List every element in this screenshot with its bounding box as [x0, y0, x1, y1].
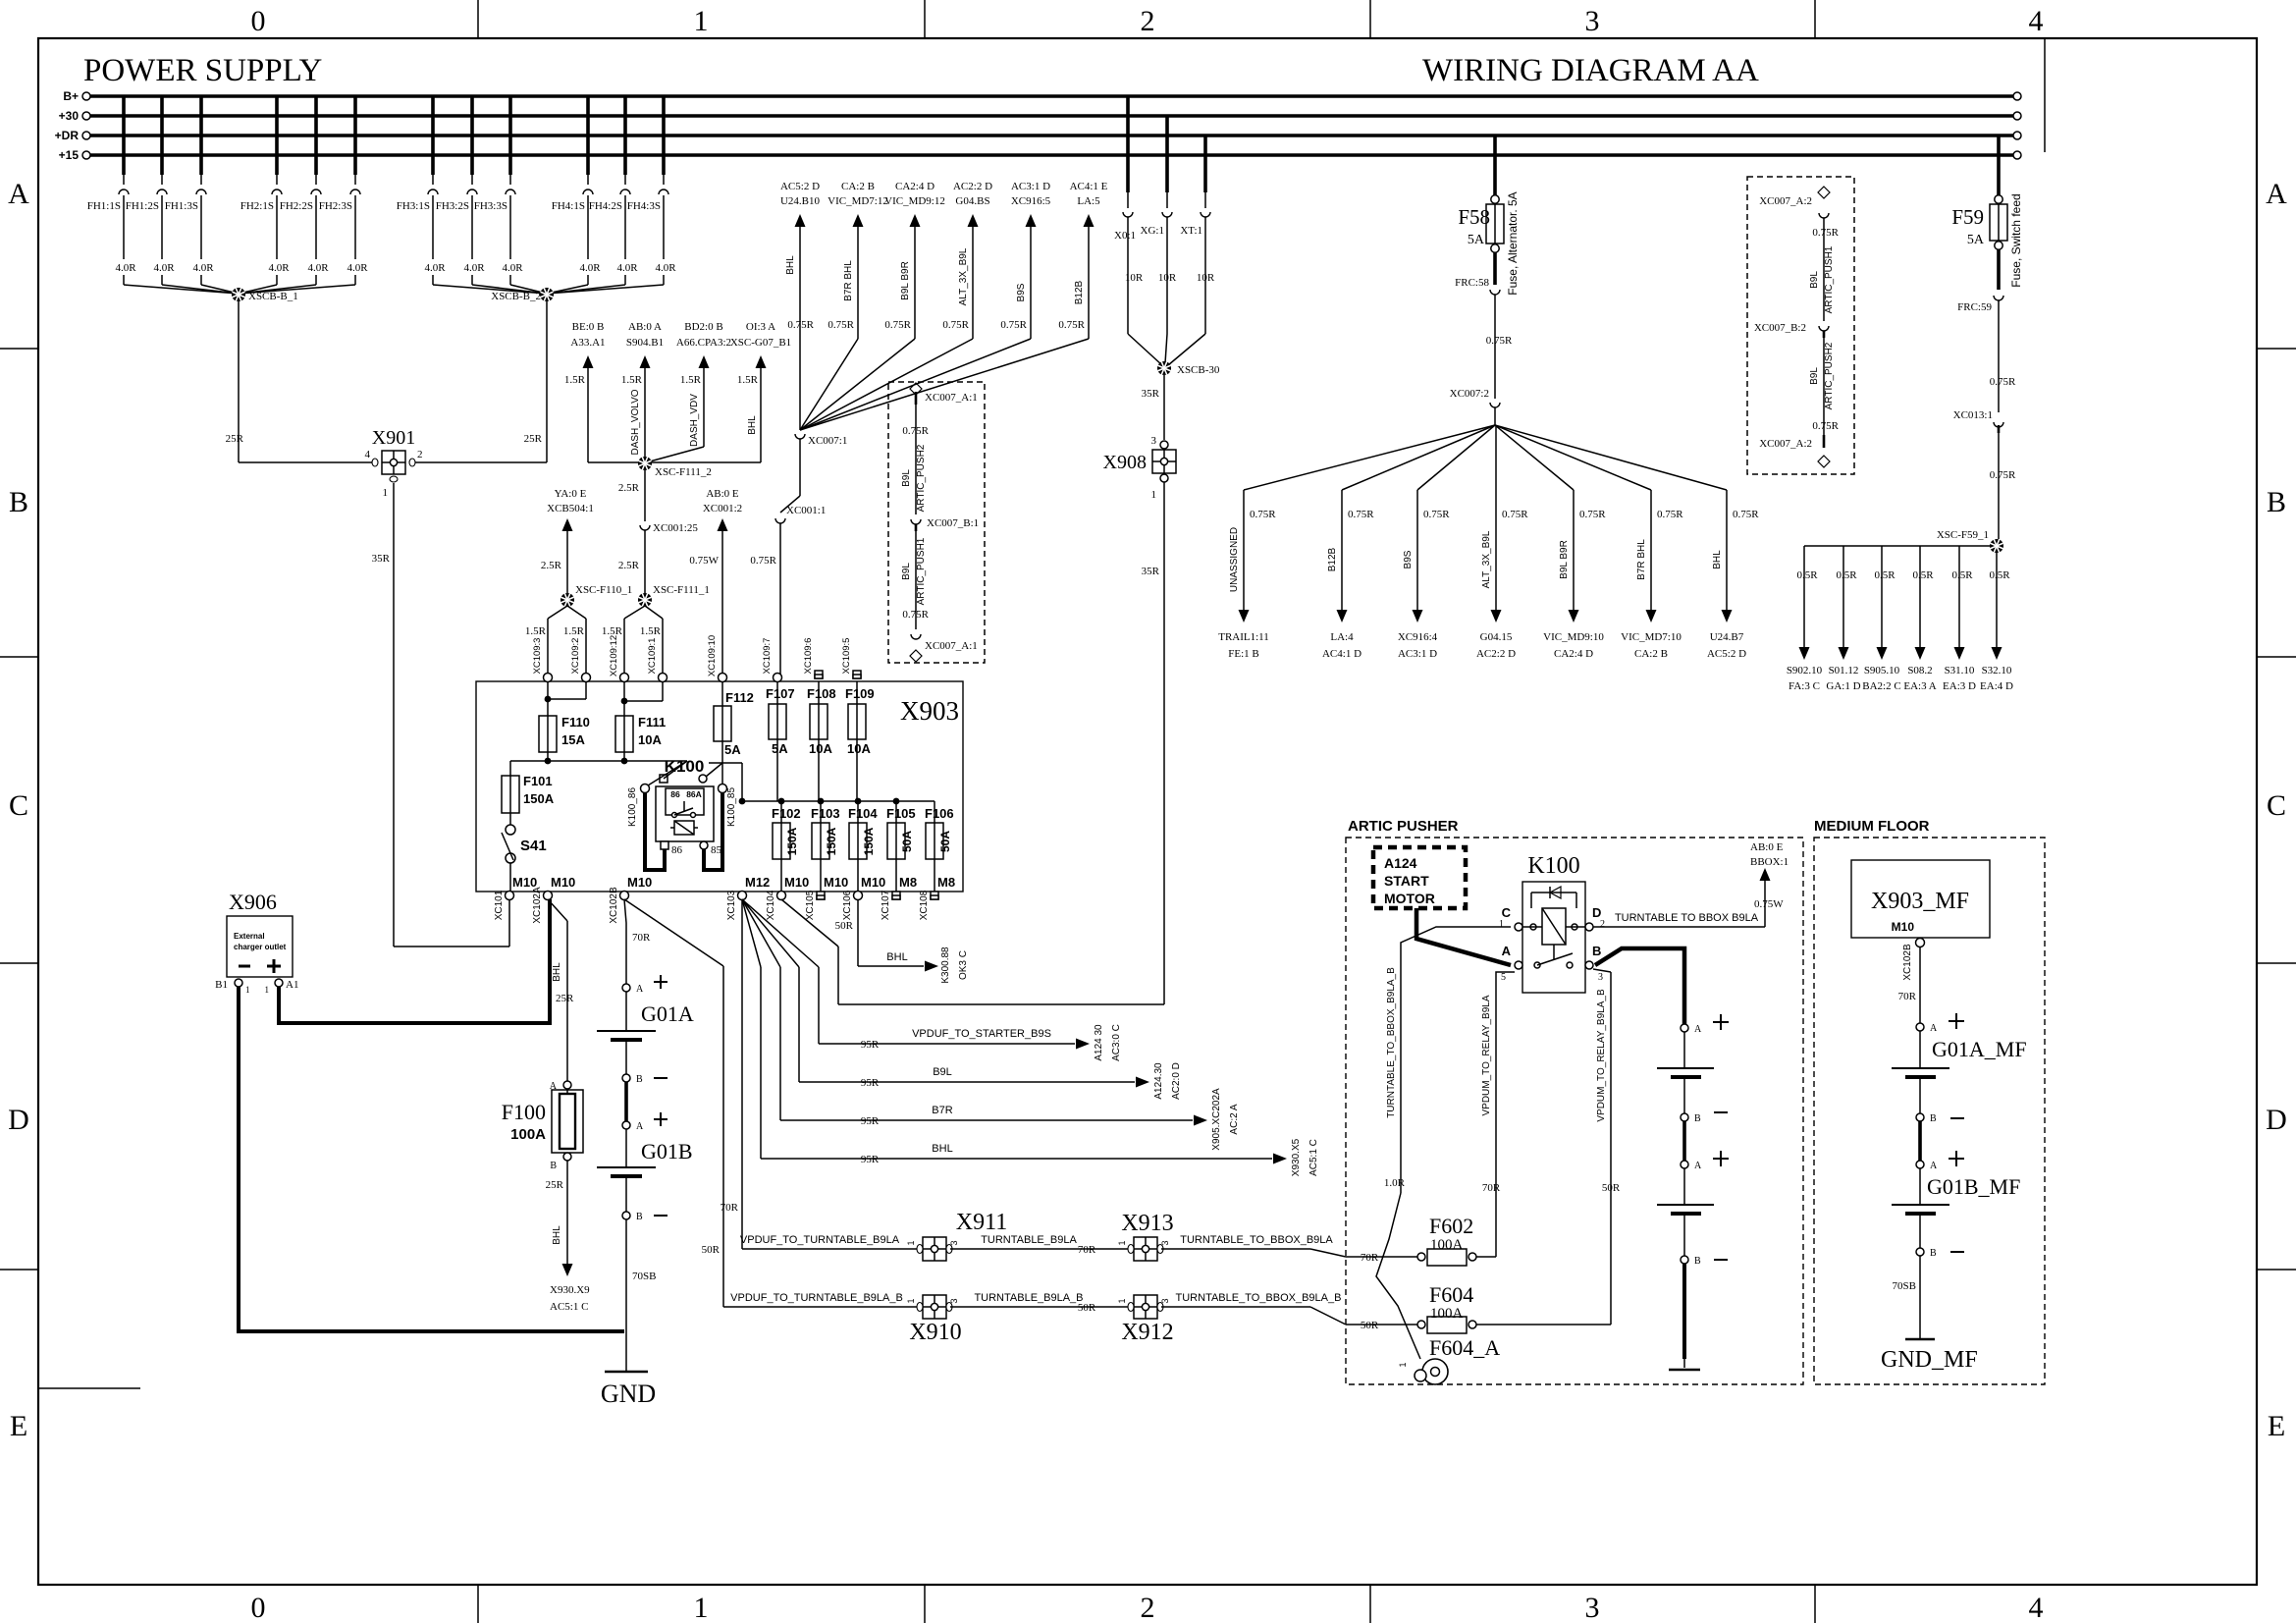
thick wire X906 B1 to GND	[239, 987, 624, 1331]
svg-text:B: B	[1930, 1113, 1937, 1124]
svg-text:B9L: B9L	[901, 469, 912, 487]
svg-text:G01A: G01A	[641, 1001, 694, 1026]
svg-text:AC2:0 D: AC2:0 D	[1171, 1062, 1182, 1100]
svg-text:F103: F103	[811, 806, 840, 821]
svg-text:4: 4	[2029, 5, 2044, 37]
svg-text:XSC-F111_1: XSC-F111_1	[653, 584, 710, 596]
svg-text:XC107: XC107	[881, 890, 891, 920]
svg-text:0.75R: 0.75R	[1733, 509, 1759, 520]
svg-text:95R: 95R	[861, 1039, 880, 1051]
svg-text:0: 0	[251, 1592, 266, 1623]
svg-text:1.5R: 1.5R	[525, 625, 547, 637]
wire 0.75R B9L B9R to VIC_MD9:10	[1495, 425, 1574, 490]
svg-text:1.5R: 1.5R	[737, 374, 759, 386]
wire 35R X901 pin1 to XC101	[393, 483, 395, 947]
ground GND_MF	[1905, 1338, 1935, 1341]
svg-text:70R: 70R	[1482, 1182, 1501, 1194]
svg-text:XC103: XC103	[726, 890, 737, 920]
svg-text:X905.XC202A: X905.XC202A	[1211, 1088, 1222, 1151]
svg-text:D: D	[8, 1104, 29, 1136]
svg-text:VPDUF_TO_TURNTABLE_B9LA_B: VPDUF_TO_TURNTABLE_B9LA_B	[730, 1292, 903, 1304]
svg-text:F110: F110	[561, 715, 590, 730]
fuse F106 50A	[934, 801, 935, 823]
svg-text:S32.10: S32.10	[1982, 665, 2012, 676]
svg-text:ARTIC_PUSH2: ARTIC_PUSH2	[1824, 342, 1835, 409]
svg-text:M10: M10	[627, 875, 652, 890]
svg-text:XG:1: XG:1	[1141, 225, 1164, 237]
svg-text:FH4:2S: FH4:2S	[589, 200, 622, 212]
svg-text:WIRING DIAGRAM AA: WIRING DIAGRAM AA	[1422, 53, 1759, 88]
svg-text:X912: X912	[1121, 1320, 1173, 1345]
fuse F111 10A	[621, 698, 628, 705]
svg-text:E: E	[2268, 1410, 2285, 1442]
svg-text:EA:4 D: EA:4 D	[1980, 680, 2013, 692]
svg-text:ARTIC_PUSH1: ARTIC_PUSH1	[916, 537, 927, 605]
svg-text:FH2:3S: FH2:3S	[319, 200, 352, 212]
svg-text:B7R: B7R	[932, 1105, 952, 1116]
svg-text:TURNTABLE_TO_BBOX_B9LA_B: TURNTABLE_TO_BBOX_B9LA_B	[1386, 967, 1397, 1118]
svg-text:3: 3	[1585, 5, 1600, 37]
svg-text:EA:3 D: EA:3 D	[1943, 680, 1976, 692]
svg-text:XC007_A:1: XC007_A:1	[925, 640, 978, 652]
wire 0.75R BHL to U24.B7	[1495, 425, 1727, 490]
svg-text:F604: F604	[1429, 1282, 1473, 1307]
svg-text:X903: X903	[900, 696, 959, 726]
svg-text:0.5R: 0.5R	[1951, 569, 1973, 581]
svg-text:4.0R: 4.0R	[115, 262, 136, 274]
svg-text:XC106: XC106	[842, 890, 853, 920]
svg-text:5A: 5A	[1468, 233, 1485, 247]
dashed box ARTIC_PUSH jumper XC007_A:2	[1747, 177, 1854, 474]
svg-text:50R: 50R	[1602, 1182, 1621, 1194]
svg-text:X901: X901	[372, 427, 415, 449]
svg-text:FA:3 C: FA:3 C	[1789, 680, 1820, 692]
svg-text:CA:2 B: CA:2 B	[1634, 648, 1668, 660]
svg-text:0.75R: 0.75R	[1990, 469, 2016, 481]
connector XC001:25	[640, 525, 650, 530]
svg-text:F111: F111	[638, 715, 666, 730]
svg-text:B9S: B9S	[1016, 283, 1027, 301]
svg-text:A: A	[1930, 1161, 1938, 1171]
svg-text:B9L: B9L	[1809, 271, 1820, 289]
svg-text:B: B	[1930, 1248, 1937, 1259]
svg-text:UNASSIGNED: UNASSIGNED	[1229, 527, 1240, 592]
fuse F101 150A	[502, 776, 519, 813]
svg-text:CA:2 B: CA:2 B	[841, 181, 875, 192]
svg-text:FH2:2S: FH2:2S	[280, 200, 313, 212]
wires 95R fan from XC103	[742, 899, 761, 967]
pin K100_86 side	[641, 784, 650, 793]
wire 0.5R to S32.10	[1996, 553, 1998, 647]
svg-text:0.75W: 0.75W	[1754, 898, 1784, 910]
svg-text:1.5R: 1.5R	[563, 625, 585, 637]
wire 0.5R to S905.10	[1881, 546, 1883, 647]
wire TURNTABLE_B9LA	[950, 1248, 1130, 1250]
wire TURNTABLE_TO_BBOX_B9LA_B	[1161, 1306, 1310, 1308]
svg-text:XC013:1: XC013:1	[1953, 409, 1993, 421]
svg-text:AC4:1 D: AC4:1 D	[1322, 648, 1362, 660]
svg-text:1: 1	[694, 5, 709, 37]
svg-text:5A: 5A	[724, 742, 741, 757]
svg-text:4.0R: 4.0R	[579, 262, 601, 274]
wire VPDUM_TO_RELAY_B9LA_B 50R	[1610, 972, 1612, 1325]
fuse F109 10A	[856, 681, 858, 704]
connector XG:1	[1165, 116, 1169, 192]
svg-text:LA:4: LA:4	[1330, 631, 1354, 643]
svg-text:1: 1	[694, 1592, 709, 1623]
svg-text:A: A	[1694, 1161, 1702, 1171]
svg-text:FE:1 B: FE:1 B	[1228, 648, 1258, 660]
connector FRC:59	[1994, 296, 2003, 300]
wire 2.5R to XC001:25	[644, 470, 646, 521]
svg-text:0.75R: 0.75R	[942, 319, 969, 331]
svg-text:50R: 50R	[1361, 1320, 1379, 1331]
svg-text:35R: 35R	[1142, 566, 1160, 577]
pin XC109:10	[719, 674, 727, 682]
fuse holder feed FH4:3S	[662, 96, 666, 175]
wire 0.75R UNASSIGNED to TRAIL1:11	[1244, 425, 1495, 490]
svg-text:G04.BS: G04.BS	[955, 195, 989, 207]
wire TURNTABLE_TO_BBOX_B9LA	[1161, 1248, 1310, 1250]
thick coil wire right U	[704, 792, 722, 870]
svg-text:U24.B7: U24.B7	[1710, 631, 1744, 643]
relay coil	[1542, 908, 1566, 945]
pin XC109:12	[620, 674, 629, 682]
svg-text:95R: 95R	[861, 1077, 880, 1089]
thick wire BHL X906 A1 to XC102A	[279, 899, 550, 1023]
svg-text:External: External	[234, 932, 265, 941]
svg-text:F108: F108	[807, 686, 836, 701]
svg-text:D: D	[1592, 905, 1601, 920]
svg-text:OK3 C: OK3 C	[958, 950, 969, 980]
svg-text:K100: K100	[1527, 853, 1579, 879]
svg-text:XC109:7: XC109:7	[762, 638, 773, 675]
fuse F107 5A	[776, 681, 778, 704]
power rail B+	[90, 94, 2013, 98]
wire 0.5R to S31.10	[1958, 546, 1960, 647]
svg-text:2.5R: 2.5R	[618, 560, 640, 571]
svg-text:70R: 70R	[1898, 991, 1917, 1002]
svg-text:ARTIC_PUSH1: ARTIC_PUSH1	[1824, 245, 1835, 313]
svg-text:S902.10: S902.10	[1787, 665, 1823, 676]
svg-text:B: B	[2267, 486, 2286, 518]
svg-text:M10: M10	[784, 875, 809, 890]
node XC007:1	[795, 434, 805, 439]
svg-text:BHL: BHL	[552, 1225, 562, 1245]
svg-text:AC5:2 D: AC5:2 D	[1707, 648, 1746, 660]
wire 95R B9L	[799, 1081, 1135, 1083]
svg-text:F106: F106	[925, 806, 954, 821]
svg-text:TURNTABLE TO BBOX B9LA: TURNTABLE TO BBOX B9LA	[1615, 912, 1759, 924]
svg-text:XC007_A:2: XC007_A:2	[1759, 438, 1812, 450]
svg-text:FH1:1S: FH1:1S	[87, 200, 121, 212]
pin XC109:5	[853, 671, 861, 678]
wire 70R to G01A_MF	[1919, 947, 1921, 1023]
svg-text:10R: 10R	[1158, 272, 1177, 284]
connector X0:1	[1126, 96, 1130, 192]
svg-text:1: 1	[1151, 489, 1157, 501]
wire 0.75R to XC109:7	[779, 523, 781, 675]
svg-text:GND_MF: GND_MF	[1881, 1347, 1978, 1373]
svg-text:XC916:4: XC916:4	[1398, 631, 1438, 643]
fuse holder feed FH1:2S	[160, 96, 164, 175]
svg-text:4.0R: 4.0R	[192, 262, 214, 274]
svg-text:CA2:4 D: CA2:4 D	[895, 181, 934, 192]
svg-text:XC102A: XC102A	[532, 887, 543, 924]
svg-text:1: 1	[1117, 1240, 1127, 1245]
pin K100_85 side	[719, 784, 727, 793]
wire 0.5R to S902.10	[1803, 546, 1805, 647]
svg-text:4.0R: 4.0R	[424, 262, 446, 274]
pin 86 bottom	[661, 841, 668, 849]
svg-text:B: B	[9, 486, 28, 518]
svg-text:OI:3 A: OI:3 A	[746, 321, 775, 333]
svg-text:XC101: XC101	[494, 890, 505, 920]
bus to F102-F106	[742, 800, 934, 802]
thick link G01A_MF to G01B_MF	[1918, 1121, 1922, 1161]
svg-text:85: 85	[711, 844, 722, 856]
wire 70R XC102B to G01A	[624, 899, 626, 923]
svg-text:XT:1: XT:1	[1180, 225, 1202, 237]
svg-text:0.75R: 0.75R	[1579, 509, 1606, 520]
svg-text:B7R BHL: B7R BHL	[1636, 539, 1647, 580]
svg-text:0.75W: 0.75W	[689, 555, 719, 567]
svg-text:BHL: BHL	[932, 1143, 952, 1155]
svg-text:TRAIL1:11: TRAIL1:11	[1218, 631, 1269, 643]
svg-text:VPDUM_TO_RELAY_B9LA: VPDUM_TO_RELAY_B9LA	[1481, 995, 1492, 1115]
svg-text:0.75R: 0.75R	[902, 425, 929, 437]
svg-text:A66.CPA3:2: A66.CPA3:2	[676, 337, 731, 349]
svg-text:B: B	[1694, 1113, 1701, 1124]
svg-text:0.75R: 0.75R	[1657, 509, 1683, 520]
svg-text:F109: F109	[845, 686, 875, 701]
svg-text:MEDIUM FLOOR: MEDIUM FLOOR	[1814, 818, 1930, 835]
svg-text:70SB: 70SB	[1893, 1280, 1916, 1292]
svg-text:1.0R: 1.0R	[1384, 1177, 1406, 1189]
svg-text:0.75R: 0.75R	[1423, 509, 1450, 520]
wire B9L ARTIC_PUSH2	[915, 438, 917, 514]
wire 0.75R to XC007:2	[1494, 295, 1496, 399]
fuse holder feed FH3:1S	[431, 96, 435, 175]
svg-text:A124.30: A124.30	[1153, 1062, 1164, 1100]
svg-text:2: 2	[1141, 5, 1155, 37]
wire 0.75R to XSC-F59_1	[1998, 433, 2000, 539]
svg-text:AC:2 A: AC:2 A	[1229, 1104, 1240, 1134]
svg-text:0.75R: 0.75R	[1058, 319, 1085, 331]
svg-text:4.0R: 4.0R	[616, 262, 638, 274]
svg-text:BHL: BHL	[747, 415, 758, 435]
wire BHL 25R F100 to X930.X9	[566, 1161, 568, 1265]
svg-text:+30: +30	[59, 109, 80, 123]
svg-text:1: 1	[906, 1240, 916, 1245]
svg-text:10A: 10A	[638, 732, 662, 747]
power rail +15	[90, 153, 2013, 157]
svg-text:25R: 25R	[524, 433, 543, 445]
svg-text:1.5R: 1.5R	[680, 374, 702, 386]
fuse F112 5A	[721, 681, 723, 706]
svg-text:B9L: B9L	[933, 1066, 952, 1078]
svg-text:FH4:3S: FH4:3S	[627, 200, 661, 212]
thick link G01A B to G01B A	[624, 1082, 628, 1121]
svg-text:2.5R: 2.5R	[618, 482, 640, 494]
svg-text:X911: X911	[956, 1210, 1007, 1235]
wire DASH_VDV	[703, 368, 705, 447]
svg-text:1: 1	[265, 985, 270, 995]
svg-text:M10: M10	[1892, 920, 1915, 934]
svg-text:XSCB-30: XSCB-30	[1177, 364, 1220, 376]
svg-text:1.5R: 1.5R	[621, 374, 643, 386]
svg-text:F105: F105	[886, 806, 916, 821]
wire 0.5R to S01.12	[1842, 546, 1844, 647]
svg-text:X930.X5: X930.X5	[1291, 1138, 1302, 1176]
svg-text:4.0R: 4.0R	[502, 262, 523, 274]
fuse F110 15A	[545, 696, 552, 703]
svg-text:0.75R: 0.75R	[1812, 227, 1839, 239]
svg-text:50A: 50A	[938, 831, 952, 852]
wire TURNTABLE_TO_BBOX_B9LA_B 1.0R	[1401, 927, 1511, 1193]
fuse holder feed FH4:2S	[623, 96, 627, 175]
splice XSCB-B_1	[124, 285, 239, 294]
wire 95R VPDUF_TO_STARTER_B9S	[819, 1043, 1075, 1045]
svg-text:B1: B1	[215, 979, 228, 991]
svg-text:F58: F58	[1458, 205, 1490, 229]
wire 35R XC104 to X908	[781, 899, 838, 947]
svg-text:MOTOR: MOTOR	[1384, 891, 1435, 906]
svg-text:5A: 5A	[772, 741, 788, 756]
svg-text:A: A	[636, 984, 644, 995]
svg-text:25R: 25R	[556, 993, 574, 1004]
svg-text:BHL: BHL	[785, 255, 796, 275]
svg-text:A1: A1	[286, 979, 298, 991]
svg-text:F100: F100	[502, 1100, 546, 1124]
bus F101/F110/F111 to relay	[510, 760, 687, 762]
svg-text:XSC-F110_1: XSC-F110_1	[575, 584, 632, 596]
svg-text:3: 3	[949, 1298, 959, 1303]
relay contact	[1553, 945, 1555, 959]
thick wire relay B to batteries	[1595, 948, 1684, 1024]
svg-text:4: 4	[365, 449, 371, 460]
svg-text:AB:0 E: AB:0 E	[706, 488, 739, 500]
svg-text:DASH_VOLVO: DASH_VOLVO	[630, 389, 641, 455]
thick wire A124 to relay pin A	[1416, 908, 1511, 965]
wire 0.75R ALT_3X_B9L to G04.15	[1495, 425, 1497, 610]
svg-text:XC916:5: XC916:5	[1011, 195, 1051, 207]
svg-text:A: A	[1502, 944, 1512, 958]
svg-text:10R: 10R	[1197, 272, 1215, 284]
svg-text:2.5R: 2.5R	[541, 560, 562, 571]
svg-text:POWER SUPPLY: POWER SUPPLY	[83, 53, 322, 88]
pin XC109:7	[774, 674, 782, 682]
svg-text:K300.88: K300.88	[940, 947, 951, 984]
bottom ruler ticks	[477, 1585, 479, 1623]
splice XSCB-30	[1128, 334, 1162, 365]
svg-text:VPDUM_TO_RELAY_B9LA_B: VPDUM_TO_RELAY_B9LA_B	[1596, 989, 1607, 1122]
svg-text:FH3:3S: FH3:3S	[474, 200, 507, 212]
svg-text:X913: X913	[1121, 1211, 1173, 1236]
svg-text:70R: 70R	[721, 1202, 739, 1214]
svg-text:A: A	[636, 1121, 644, 1132]
svg-text:XC109:12: XC109:12	[609, 635, 619, 676]
connector X908	[1160, 441, 1168, 449]
svg-text:D: D	[2266, 1104, 2287, 1136]
svg-text:3: 3	[1598, 972, 1603, 983]
connector X903_MF	[1851, 860, 1990, 938]
svg-text:BHL: BHL	[552, 962, 562, 982]
svg-text:0.75R: 0.75R	[787, 319, 814, 331]
wire TURNTABLE_B9LA_B	[950, 1306, 1130, 1308]
thick wire battery to ground	[1682, 1264, 1686, 1359]
wire 2.5R to XSC-F111_1	[644, 530, 646, 593]
svg-text:A124 30: A124 30	[1094, 1024, 1104, 1061]
svg-text:150A: 150A	[523, 791, 555, 806]
svg-text:F604_A: F604_A	[1429, 1335, 1500, 1360]
wire F112 to bus	[709, 762, 742, 764]
splice XSCB-B_2	[433, 285, 547, 294]
svg-text:AC5:1 C: AC5:1 C	[1308, 1139, 1319, 1176]
svg-text:S904.B1: S904.B1	[626, 337, 664, 349]
svg-text:B12B: B12B	[1074, 280, 1085, 304]
wire BHL right leg	[760, 368, 762, 462]
svg-text:CA2:4 D: CA2:4 D	[1554, 648, 1593, 660]
svg-text:0.75R: 0.75R	[750, 555, 776, 567]
svg-text:F102: F102	[772, 806, 801, 821]
splice XSC-F111_1	[638, 593, 652, 607]
pin XC007_A:1 top diamond	[910, 383, 922, 395]
svg-text:0.5R: 0.5R	[1874, 569, 1896, 581]
svg-text:15A: 15A	[561, 732, 585, 747]
wire 70SB to GND	[625, 1219, 627, 1372]
connector XT:1	[1203, 135, 1207, 192]
right margin row ticks	[2257, 348, 2296, 350]
wire 0.5R to S08.2	[1919, 546, 1921, 647]
pin XC007_A:2 top diamond	[1818, 187, 1830, 198]
svg-text:YA:0 E: YA:0 E	[555, 488, 587, 500]
svg-text:+15: +15	[59, 148, 80, 162]
svg-text:ARTIC PUSHER: ARTIC PUSHER	[1348, 818, 1459, 835]
svg-text:AC3:1 D: AC3:1 D	[1398, 648, 1437, 660]
svg-text:0.75R: 0.75R	[1250, 509, 1276, 520]
svg-text:4.0R: 4.0R	[655, 262, 676, 274]
fuse holder feed FH2:3S	[353, 96, 357, 175]
svg-text:70SB: 70SB	[632, 1271, 656, 1282]
svg-text:F107: F107	[766, 686, 795, 701]
svg-text:25R: 25R	[226, 433, 244, 445]
svg-text:0.5R: 0.5R	[1836, 569, 1857, 581]
pin XC109:3	[544, 674, 553, 682]
fold mark line bottom left	[38, 1387, 140, 1389]
svg-text:S01.12: S01.12	[1829, 665, 1859, 676]
wire 70R XC103 to X911 row	[741, 899, 743, 1249]
fuse holder feed FH3:3S	[508, 96, 512, 175]
batteries artic pusher	[1681, 1024, 1688, 1032]
svg-text:TURNTABLE_TO_BBOX_B9LA: TURNTABLE_TO_BBOX_B9LA	[1180, 1234, 1333, 1246]
connector hook top XC007_A:2	[1819, 213, 1829, 218]
wire 70SB to GND_MF	[1919, 1256, 1921, 1339]
svg-text:2: 2	[1600, 919, 1605, 930]
svg-text:XC109:5: XC109:5	[841, 638, 852, 675]
svg-text:XC109:2: XC109:2	[570, 638, 581, 675]
svg-text:X903_MF: X903_MF	[1871, 889, 1969, 914]
connector X901	[239, 461, 378, 463]
wire 0.75R XC007:1 to XC001:1	[799, 439, 801, 496]
svg-text:AC2:2 D: AC2:2 D	[953, 181, 992, 192]
svg-text:XC109:10: XC109:10	[707, 635, 718, 676]
svg-text:BHL: BHL	[1712, 550, 1723, 569]
bus from XSC-F59_1	[1804, 545, 1990, 547]
svg-text:M10: M10	[824, 875, 848, 890]
fuse holder feed FH2:2S	[314, 96, 318, 175]
fuse holder feed FH2:1S	[275, 96, 279, 175]
